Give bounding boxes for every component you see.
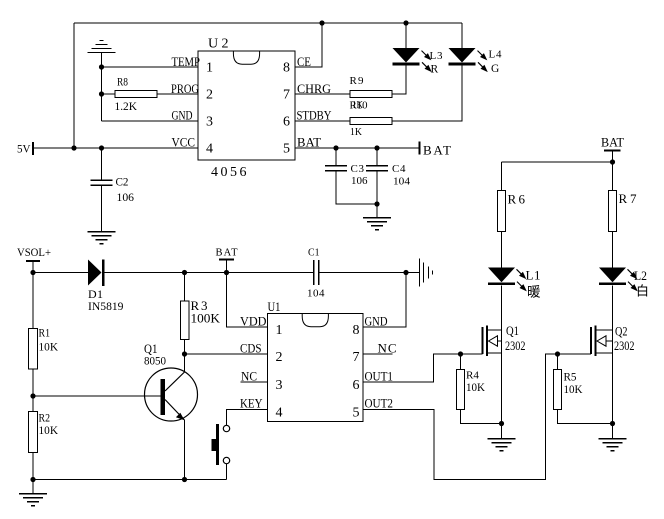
svg-text:Q1: Q1 — [506, 323, 519, 338]
junction 5V left drop — [71, 145, 76, 150]
junction Q1 source R4 — [499, 421, 504, 426]
resistor R4 10K — [457, 370, 465, 410]
transistor Q1 8050 — [145, 368, 198, 421]
junction R3 top — [182, 270, 187, 275]
wire R3 top lead — [184, 273, 186, 302]
svg-text:10K: 10K — [39, 423, 59, 437]
wire Q1 source ground stem — [501, 424, 503, 439]
junction Q1 gate R4 — [458, 351, 463, 356]
wire OUT1 path to Q1 gate — [363, 354, 483, 382]
svg-text:1K: 1K — [350, 126, 362, 138]
capacitor C1 104 — [314, 260, 319, 285]
resistor R6 — [498, 191, 506, 232]
junction BAT top-right — [610, 159, 615, 164]
svg-text:VDD: VDD — [240, 314, 267, 329]
wire 5V feed to U2 VCC — [33, 147, 198, 149]
wire VSOL+ to D1 anode — [33, 272, 88, 274]
resistor R10 1K — [350, 118, 392, 125]
resistor R3 100K — [181, 301, 190, 340]
svg-text:G: G — [491, 63, 499, 75]
svg-text:VSOL+: VSOL+ — [17, 245, 51, 259]
wire Q2 source ground stem — [612, 424, 614, 439]
svg-text:TEMP: TEMP — [172, 54, 201, 69]
svg-text:KEY: KEY — [240, 396, 263, 411]
svg-text:7: 7 — [353, 350, 360, 365]
MOSFET Q2 2302 — [591, 326, 613, 357]
svg-text:10K: 10K — [564, 384, 584, 396]
svg-text:2: 2 — [276, 350, 283, 365]
wire R6 top lead — [501, 162, 503, 191]
wire CDS to U1 pin2 — [185, 353, 268, 355]
ground under C2 — [88, 232, 116, 244]
svg-text:10K: 10K — [466, 382, 486, 394]
wire TEMP to U2 pin1 — [102, 66, 199, 68]
wire R10 to L4 cathode — [392, 66, 462, 122]
wire Q1 collector diagonal — [165, 372, 185, 391]
terminal BAT top-right — [604, 150, 621, 152]
svg-text:CE: CE — [297, 54, 311, 69]
junction bottom rail emitter — [182, 477, 187, 482]
svg-text:GND: GND — [172, 108, 193, 123]
svg-text:R8: R8 — [117, 75, 128, 89]
MOSFET Q1 2302 — [483, 326, 502, 357]
resistor R9 1K — [350, 91, 392, 98]
junction BAT/VDD — [224, 270, 229, 275]
wire Q1 emitter diagonal — [165, 400, 185, 421]
wire R4 top lead — [460, 354, 462, 370]
resistor R8 1.2K — [115, 91, 157, 98]
svg-text:4: 4 — [276, 406, 283, 421]
junction Q1 base — [30, 393, 35, 398]
ground sideways at C1 — [420, 259, 433, 287]
svg-text:6: 6 — [353, 378, 360, 393]
svg-text:R9: R9 — [350, 75, 365, 87]
ground under C4 — [363, 218, 391, 230]
svg-text:1.2K: 1.2K — [115, 99, 138, 113]
resistor R1 10K — [29, 329, 38, 370]
svg-text:R4: R4 — [466, 370, 479, 382]
wire C2 bottom lead to ground — [101, 185, 103, 232]
junction BAT C4 — [374, 145, 379, 150]
junction BAT C3 — [333, 145, 338, 150]
wire Q1 emitter vertical — [184, 420, 186, 480]
capacitor C4 104 — [366, 166, 388, 171]
svg-text:L2: L2 — [634, 268, 647, 283]
svg-text:8: 8 — [353, 323, 360, 338]
wire U2 STDBY to R10 — [295, 120, 350, 122]
wire top-right rail — [502, 161, 613, 163]
svg-text:OUT1: OUT1 — [365, 369, 394, 384]
wire L4 anode drop — [461, 23, 463, 48]
capacitor C2 106 — [91, 180, 113, 185]
svg-text:10K: 10K — [39, 340, 59, 354]
junction top rail CE — [319, 20, 324, 25]
svg-text:100K: 100K — [191, 311, 221, 326]
svg-text:BAT: BAT — [423, 143, 451, 158]
junction top rail L3 — [403, 20, 408, 25]
svg-text:8050: 8050 — [144, 354, 166, 368]
svg-text:2302: 2302 — [614, 339, 635, 353]
terminal BAT at U2 — [419, 142, 421, 155]
svg-text:NC: NC — [241, 369, 257, 384]
wire Q1 drain-source vertical — [501, 286, 503, 424]
svg-text:1: 1 — [206, 61, 213, 76]
svg-text:OUT2: OUT2 — [365, 396, 394, 411]
svg-text:暖: 暖 — [527, 285, 541, 300]
svg-text:CDS: CDS — [240, 341, 262, 356]
terminal BAT mid — [219, 259, 234, 261]
svg-text:106: 106 — [351, 175, 368, 187]
wire C4 bottom lead to ground — [376, 171, 378, 218]
svg-text:3: 3 — [276, 378, 283, 393]
svg-text:7: 7 — [283, 88, 290, 103]
ground under Q1 source — [488, 439, 516, 451]
wire lead to side ground — [406, 272, 419, 274]
wire VDD path to U1 pin1 — [227, 273, 268, 328]
svg-text:2: 2 — [206, 88, 213, 103]
resistor R7 — [609, 191, 617, 232]
wire GND path U1 pin8 — [363, 273, 406, 328]
wire BAT top-right terminal stem — [612, 151, 614, 163]
resistor R2 10K — [29, 412, 38, 453]
wire C1 to ground node — [319, 272, 407, 274]
wire VSOL+ terminal stem — [32, 261, 34, 273]
wire U2 CHRG to R9 — [295, 93, 350, 95]
svg-text:1K: 1K — [352, 99, 363, 111]
wire button bottom lead — [226, 464, 228, 480]
wire R5 bottom lead to Q2 source — [558, 410, 613, 424]
wire R8 left lead — [102, 93, 116, 95]
IC U1 body — [268, 314, 364, 422]
capacitor C3 106 — [325, 166, 347, 171]
wire C3 bottom lead — [336, 171, 377, 205]
resistor R5 10K — [554, 370, 562, 410]
wire CE riser — [295, 23, 322, 67]
svg-text:3: 3 — [206, 115, 213, 130]
wire R7 bottom lead to L2 — [612, 232, 614, 268]
wire left drop from top rail to 5V line — [73, 23, 75, 148]
ground top-left (flipped earth) — [88, 41, 116, 53]
wire R2 bottom lead — [32, 453, 34, 480]
diode D1 IN5819 — [88, 260, 103, 287]
svg-text:104: 104 — [393, 176, 411, 188]
svg-text:C4: C4 — [392, 163, 406, 175]
wire R1 top lead — [32, 273, 34, 329]
LED L3 red — [393, 48, 432, 72]
svg-text:VCC: VCC — [172, 135, 196, 150]
LED L1 warm — [488, 268, 527, 292]
junction TEMP — [99, 64, 104, 69]
wire ground stem top-left — [101, 53, 103, 122]
wire C4 top lead — [376, 148, 378, 166]
svg-text:5: 5 — [283, 142, 290, 157]
wire R9 to L3 cathode — [392, 66, 406, 95]
wire GND to U2 pin3 — [102, 120, 199, 122]
wire R2 top lead — [32, 396, 34, 412]
IC U2 4056 body — [198, 51, 295, 160]
wire R3 bottom lead — [184, 340, 186, 355]
svg-text:R: R — [431, 64, 439, 76]
svg-text:白: 白 — [636, 284, 649, 299]
junction VSOL+ — [30, 270, 35, 275]
svg-text:PROG: PROG — [171, 81, 199, 96]
wire R1 bottom lead — [32, 369, 34, 396]
junction Q2 source R5 — [610, 421, 615, 426]
svg-text:1: 1 — [276, 323, 283, 338]
wire Q2 drain-source vertical — [612, 286, 614, 424]
svg-text:L1: L1 — [526, 268, 541, 283]
wire NC stub U1 pin3 — [241, 381, 268, 383]
svg-text:NC: NC — [378, 341, 397, 356]
wire R8 right lead to U2 pin2 — [157, 93, 198, 95]
junction CDS/R3/collector — [182, 351, 187, 356]
junction Q2 gate R5 — [555, 351, 560, 356]
LED L2 white — [599, 268, 638, 292]
wire BAT mid terminal stem — [226, 260, 228, 273]
wire ground stem bottom-left — [32, 480, 34, 494]
wire R7 top lead — [612, 162, 614, 191]
svg-text:5: 5 — [353, 406, 360, 421]
terminal VSOL+ — [26, 260, 40, 262]
svg-text:GND: GND — [365, 314, 388, 329]
svg-text:CHRG: CHRG — [297, 81, 331, 96]
junction 5V C2 — [99, 145, 104, 150]
svg-text:106: 106 — [117, 190, 135, 204]
svg-text:C1: C1 — [308, 248, 320, 259]
svg-text:C2: C2 — [116, 175, 129, 189]
svg-text:6: 6 — [283, 115, 290, 130]
junction C3/C4 ground — [374, 201, 379, 206]
wire L3 anode drop — [405, 23, 407, 48]
svg-text:104: 104 — [307, 288, 325, 300]
svg-text:BAT: BAT — [216, 248, 239, 259]
wire R6 bottom lead to L1 — [501, 232, 503, 268]
ground under Q2 source — [599, 439, 627, 451]
svg-text:8: 8 — [283, 61, 290, 76]
wire D1 cathode to C1 — [104, 272, 314, 274]
wire R5 top lead — [557, 354, 559, 370]
wire top rail — [74, 22, 462, 24]
svg-text:L4: L4 — [489, 49, 503, 61]
terminal 5V — [32, 142, 34, 155]
wire R4 bottom lead to Q1 source — [461, 410, 502, 424]
ground bottom-left — [19, 494, 47, 506]
wire bottom rail — [33, 479, 227, 481]
junction PROG — [99, 91, 104, 96]
pushbutton switch — [212, 424, 230, 465]
wire C2 top lead — [101, 148, 103, 180]
svg-text:C3: C3 — [351, 163, 365, 175]
svg-text:R5: R5 — [564, 372, 577, 384]
wire NC stub U1 pin7 — [363, 353, 393, 355]
junction C1 ground node — [403, 270, 408, 275]
wire C3 top lead — [335, 148, 337, 166]
svg-text:U1: U1 — [268, 299, 281, 314]
svg-text:4: 4 — [206, 142, 213, 157]
svg-text:STDBY: STDBY — [297, 108, 332, 123]
LED L4 green — [449, 48, 488, 72]
junction bottom rail R2 — [30, 477, 35, 482]
svg-text:5V: 5V — [17, 142, 31, 156]
svg-text:BAT: BAT — [601, 135, 624, 150]
svg-text:2302: 2302 — [505, 339, 526, 353]
svg-text:BAT: BAT — [297, 135, 321, 150]
svg-text:Q2: Q2 — [615, 325, 628, 339]
svg-text:R1: R1 — [39, 326, 51, 340]
wire U2 BAT net — [295, 147, 420, 149]
wire KEY path U1 pin4 to button — [227, 410, 268, 426]
wire Q1 collector vertical — [184, 354, 186, 372]
svg-text:IN5819: IN5819 — [88, 299, 124, 313]
svg-text:L3: L3 — [430, 50, 444, 62]
wire OUT2 path to Q2 gate — [363, 354, 591, 480]
wire Q1 base — [33, 395, 161, 397]
